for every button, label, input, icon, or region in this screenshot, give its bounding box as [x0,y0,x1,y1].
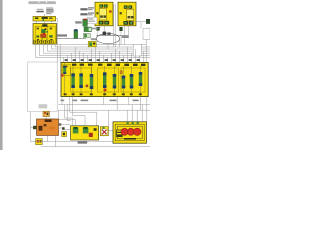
lamp box L1 [100,127,108,136]
small white box under labels [87,17,97,24]
lower horizontal bus wires [58,105,150,111]
fuse F8 [130,74,133,88]
small relay box R3 [62,132,67,137]
fusible link F0 green [75,19,87,27]
orange node F7 [120,70,123,74]
tiny labels above fuse band [65,59,140,61]
text labels left of relay K2 (M= rows) [80,8,87,15]
connector below relay K2 [119,27,122,31]
terminal block right edge [146,19,150,23]
faint label inside left box [39,104,48,108]
switch bottom terminal row [34,40,53,43]
red node F4 [86,85,89,88]
relay K1 [95,2,113,26]
pilot unit P1 above main unit [43,111,49,116]
green fuse on wire above bus [57,29,78,38]
left large unhighlighted box [28,62,58,112]
connector row C1 [84,27,97,32]
small lamp box below unit [36,139,43,145]
fuse F4 [90,74,93,89]
control unit U1 (orange) [37,119,59,135]
white box right edge [143,28,150,39]
wires bar to switch block [36,21,52,24]
red node F1 [61,74,63,76]
wires from switch staircase to right bus [35,44,150,58]
connector row C3 [88,41,96,46]
wire horizontal y38.6 [55,37,86,40]
connector left of unit [33,126,37,129]
connector below relay K1 [96,27,99,31]
band inner vertical wires [65,63,141,96]
connector bar X1 [33,16,56,21]
connector row C2 [83,33,97,40]
wire L-corner bottom left [31,112,36,142]
page left edge shadow [0,0,3,150]
relay K2 [118,2,136,26]
wire from legend to connector bar [43,14,46,17]
white box right mid [133,44,141,56]
fuse F5 [103,72,106,88]
wire pilot to unit [45,117,48,120]
text labels left of relay K1 [88,7,94,15]
wires from unit to right and down [36,125,150,147]
label below combo switch [78,141,88,143]
fuse F1 [63,66,66,74]
ignition switch block S1 [33,24,57,45]
note text left above switch [36,9,43,13]
junction mark on wire [62,127,65,130]
legend text right above switch [46,8,53,15]
bus teeth dropping into fuse band [63,47,146,62]
combo switch block B1 [71,126,99,140]
labels below band [61,100,139,102]
fuse F2 [71,73,74,88]
page background [0,0,150,150]
band top tiny dark labels [72,64,145,66]
fuse F9 [139,72,142,86]
wire motor to bus [107,44,109,49]
wire drops from band bottom [58,97,146,131]
fuse F6 [113,74,116,88]
terminal right of unit [59,123,61,125]
wire relay K1 to connector C3 [96,31,98,42]
starter motor M1 (ellipse) [96,32,128,44]
wires between relays and motor area [97,4,147,57]
title text (underlined) [29,2,57,5]
red node F5 [104,89,107,92]
bus vertical x60 [59,45,61,63]
wire right of switch [56,19,58,45]
fuse F3 [79,73,82,88]
fuse F7 [122,76,125,89]
fuse and relay band FB1 [61,62,148,96]
band bottom terminal dashes [64,93,142,95]
instrument cluster G1 [113,122,146,143]
bus line y44.5 [58,45,146,63]
